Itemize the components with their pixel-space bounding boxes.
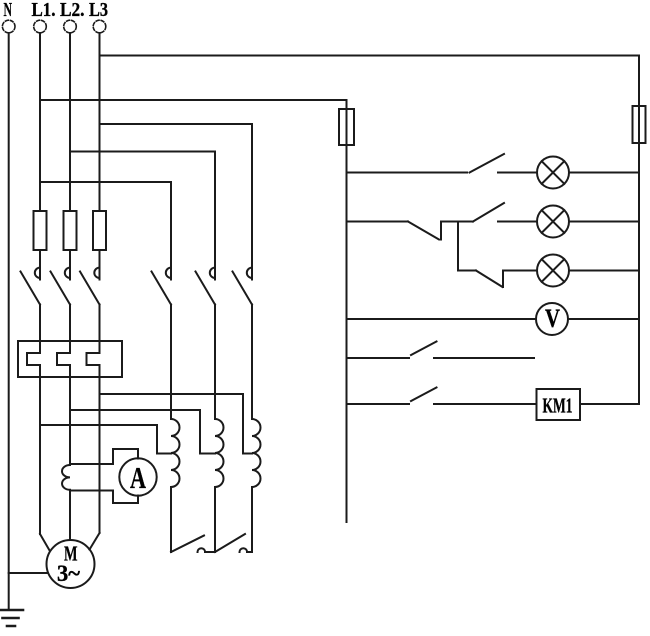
lamp HL1 (537, 157, 569, 189)
contact KM-2 jaw (65, 268, 70, 278)
contact QS1 jaw (166, 268, 171, 278)
svg-text:3~: 3~ (57, 561, 80, 586)
thermal element FR-3 (87, 353, 100, 365)
contact KM-2 blade (51, 272, 71, 305)
contact KM-3 jaw (94, 268, 99, 278)
svg-text:L2.: L2. (60, 0, 85, 21)
wire tap L3 to coil T3 (100, 394, 253, 454)
wire KM1 to bus (580, 403, 639, 405)
wire L2 vertical (69, 33, 71, 211)
wire rail 6 (347, 403, 410, 405)
contact KM-1 blade (21, 272, 41, 305)
contact NC rail3 hook (502, 271, 504, 288)
wire coil T1 down (170, 487, 172, 552)
contact KM1-a blade (171, 536, 204, 553)
wire rail 5 end (434, 357, 534, 359)
svg-text:L1.: L1. (32, 0, 56, 21)
contact KM1-b blade (215, 534, 245, 552)
wire QS1 to coil T1 (170, 305, 172, 420)
wire L1 below relay (39, 365, 41, 534)
wire rail 1 to lamp (498, 172, 537, 174)
wire rail 3 (458, 270, 476, 272)
contact NC rail3 blade (476, 271, 503, 288)
switch S6 blade (411, 388, 437, 402)
wire lamp 2 to bus (569, 221, 639, 223)
wire L1 into relay (39, 305, 41, 354)
fuse FU4 control (339, 109, 354, 145)
contact QS2 jaw (210, 268, 215, 278)
thermal relay FR box (18, 341, 122, 377)
contact QS1 blade (152, 272, 172, 305)
contact KM-3 blade (80, 272, 100, 305)
wire rail 1 (347, 172, 468, 174)
contact NC rail2 blade (408, 222, 439, 240)
voltmeter PV (536, 303, 568, 335)
terminal L2 (64, 20, 77, 33)
wire coil T2 down (214, 487, 216, 552)
contact KM-1 jaw (35, 268, 40, 278)
contact QS2 blade (196, 272, 216, 305)
terminal L3 (93, 20, 106, 33)
wire branch rail2 to rail3 (457, 222, 459, 271)
svg-text:A: A (130, 460, 146, 495)
wire rail 2 to lamp (498, 221, 537, 223)
wire coil T3 down (251, 487, 253, 552)
wire top rail L3 to right bus (100, 55, 640, 57)
contact KM-2 stub (69, 250, 71, 280)
contact KM1-a jaw (198, 548, 206, 552)
contact KM-3 stub (99, 250, 101, 280)
lamp HL3 (537, 255, 569, 287)
fuse FU2 (64, 211, 77, 250)
wire rail 4 (347, 318, 537, 320)
wire rail 3 to lamp (503, 270, 537, 272)
wire tap L1 to QS1 (40, 182, 171, 280)
coil T3 (252, 419, 261, 487)
wire rail 2 mid (441, 221, 473, 223)
wire voltmeter to bus (568, 318, 639, 320)
fuse FU5 right (633, 106, 646, 143)
motor M circle (47, 540, 95, 588)
wire lamp 1 to bus (569, 172, 639, 174)
coil T2 (215, 419, 224, 487)
svg-text:N: N (4, 0, 13, 21)
switch S2 blade (473, 203, 504, 222)
wire tap L2 to coil T2 (70, 410, 215, 454)
motor lead 3 (90, 533, 100, 550)
wire right bus (638, 56, 640, 405)
fuse FU3 (93, 211, 106, 250)
switch S5 blade (411, 342, 437, 356)
lamp HL2 (537, 206, 569, 238)
coil T1 (171, 419, 180, 487)
ammeter A (119, 458, 156, 495)
wire QS2 to coil T2 (214, 305, 216, 420)
thermal element FR-2 (57, 353, 70, 365)
switch S1 blade (470, 154, 505, 173)
svg-text:V: V (545, 304, 560, 333)
wire rail 2 (347, 221, 409, 223)
wire L3 vertical (99, 33, 101, 211)
CT coil on L2 (62, 465, 70, 490)
wire rail 6 to coil (434, 403, 537, 405)
wire L2 below relay (69, 365, 71, 464)
wire CT to ammeter top (70, 449, 138, 464)
wire tap L3 to QS3 (100, 124, 253, 280)
svg-text:L3: L3 (89, 0, 108, 21)
wire star link a (205, 551, 215, 553)
contact KM-1 stub (39, 250, 41, 280)
wire QS3 to coil T3 (251, 305, 253, 420)
contact QS3 blade (233, 272, 253, 305)
motor lead 1 (40, 534, 49, 550)
wire star link b (247, 551, 252, 553)
wire tap L1 to coil T1 (40, 425, 171, 454)
wire N vertical (8, 33, 10, 610)
motor lead 2 (69, 490, 71, 540)
contactor coil KM1 (537, 389, 581, 420)
svg-text:KM1: KM1 (543, 394, 573, 418)
fuse FU1 (34, 211, 47, 250)
ground (0, 610, 23, 626)
wire L3 below relay (99, 365, 101, 533)
wire lamp 3 to bus (569, 270, 639, 272)
wire L1 to control bus (40, 99, 347, 101)
wire rail 5 (347, 357, 410, 359)
thermal element FR-1 (27, 353, 40, 365)
wire L3 into relay (99, 305, 101, 354)
wire tap L2 to QS2 (70, 152, 215, 280)
wire control bus (346, 100, 348, 522)
contact KM1-b jaw (240, 548, 248, 552)
terminal L1 (34, 20, 47, 33)
terminal N (2, 20, 15, 33)
contact QS3 jaw (247, 268, 252, 278)
contact NC rail2 hook (440, 222, 442, 240)
wire L2 into relay (69, 305, 71, 354)
wire N to motor (9, 572, 47, 574)
wire CT to ammeter bottom (70, 491, 138, 504)
wire L1 vertical (39, 33, 41, 211)
